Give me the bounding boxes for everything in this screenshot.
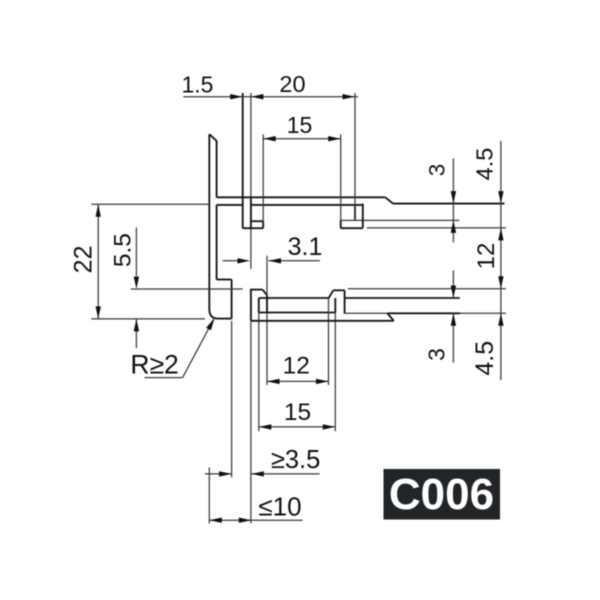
svg-text:1.5: 1.5 [182, 72, 214, 98]
svg-text:3: 3 [424, 164, 449, 177]
svg-text:≤10: ≤10 [258, 491, 301, 521]
svg-text:12: 12 [283, 353, 310, 380]
svg-text:15: 15 [284, 399, 311, 426]
svg-text:3: 3 [424, 348, 450, 361]
svg-text:12: 12 [473, 243, 500, 270]
svg-text:4.5: 4.5 [472, 148, 498, 181]
svg-text:R≥2: R≥2 [130, 350, 178, 380]
svg-text:20: 20 [279, 71, 305, 97]
svg-text:5.5: 5.5 [109, 233, 136, 267]
svg-text:22: 22 [69, 245, 97, 273]
svg-text:≥3.5: ≥3.5 [271, 446, 320, 474]
svg-text:4.5: 4.5 [471, 341, 499, 376]
svg-text:15: 15 [287, 112, 313, 138]
svg-text:3.1: 3.1 [288, 233, 323, 261]
svg-text:C006: C006 [389, 470, 494, 519]
